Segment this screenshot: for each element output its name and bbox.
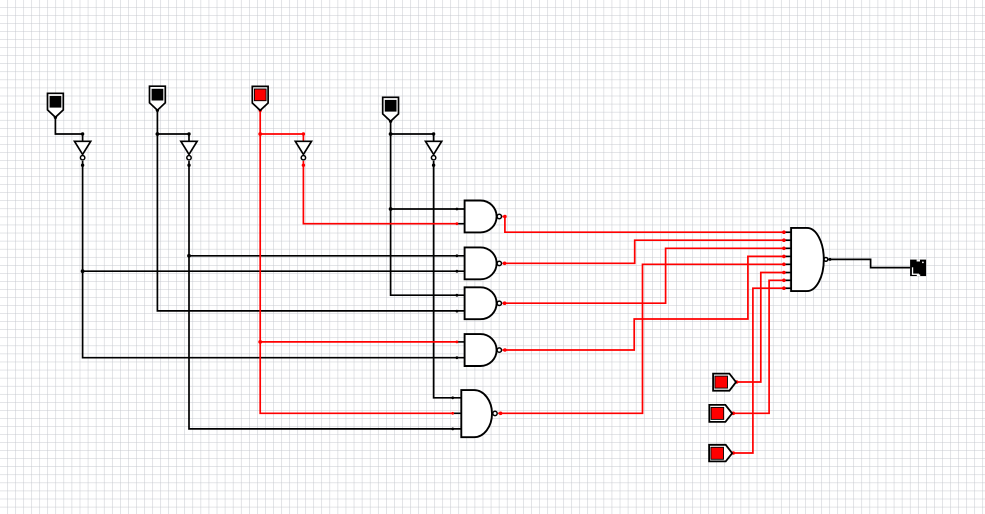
input pin F [709, 405, 732, 422]
wire net C branch to inverter U3 [260, 134, 303, 141]
red junction dots [258, 109, 785, 455]
black input stub NAND1 input 2 [458, 223, 465, 225]
wire net C' (inverter U3 output to NAND1 input 2) [303, 161, 457, 224]
inverter U2 [181, 141, 197, 160]
wire NAND5 output to U10 input 5 [498, 264, 786, 413]
black input stub NAND5 input 2 [454, 412, 462, 414]
wire net A' (inverter U1 output to NAND4 input 2) [83, 161, 465, 358]
input pin E [713, 374, 736, 391]
wire NAND2 output to U10 input 2 [502, 240, 786, 263]
nand gate U5 [465, 201, 502, 233]
wire pin F to U10 input 7 [733, 280, 787, 413]
nand gate U6 [465, 247, 502, 279]
wire net B branch to inverter U2 [157, 134, 189, 141]
black input stub NAND4 input 1 [458, 341, 465, 343]
inverter U4 [426, 141, 442, 160]
wire NAND1 output to U10 input 1 [502, 217, 786, 233]
input pin G [709, 445, 732, 462]
inverter U3 [295, 141, 311, 160]
wire net A (pin A to inverter U1) [55, 117, 82, 141]
wire net D branch to NAND1 input 1 [391, 208, 465, 210]
wire output net (U10 output to output pin) [828, 259, 910, 267]
wire net B' branch to NAND2 input 1 [189, 255, 465, 257]
wire net A' branch to NAND2 input 2 [83, 270, 465, 272]
wire net D' (inverter U4 output to NAND5 input 1) [434, 161, 462, 398]
nand gate U8 [465, 334, 502, 366]
wire net C branch to NAND4 input 1 [260, 341, 457, 343]
wire pin G to U10 input 8 [733, 288, 787, 453]
wire net B' (inverter U2 output to NAND5 input 3) [189, 161, 461, 429]
black junction dots [54, 109, 832, 431]
input pin D [383, 97, 399, 121]
wire net B (pin B vertical to NAND3 input 2) [157, 110, 464, 311]
input pin C [252, 86, 268, 110]
wire NAND4 output to U10 input 4 [502, 256, 786, 350]
wire net D branch to inverter U4 [391, 134, 434, 141]
wire pin E to U10 input 6 [736, 273, 786, 383]
inverter U1 [75, 141, 91, 160]
output pin [910, 260, 926, 277]
nand gate U7 [465, 287, 502, 319]
wire net D (pin D vertical, NAND3 input 1) [391, 121, 465, 295]
input pin B [150, 86, 166, 110]
nand gate U10 (8-input) [786, 228, 828, 291]
input pin A [48, 93, 64, 117]
wire net C (pin C red vertical to NAND5 input 2) [260, 110, 453, 413]
nand gate U9 (3-input) [461, 390, 497, 437]
wire NAND3 output to U10 input 3 [502, 248, 786, 303]
